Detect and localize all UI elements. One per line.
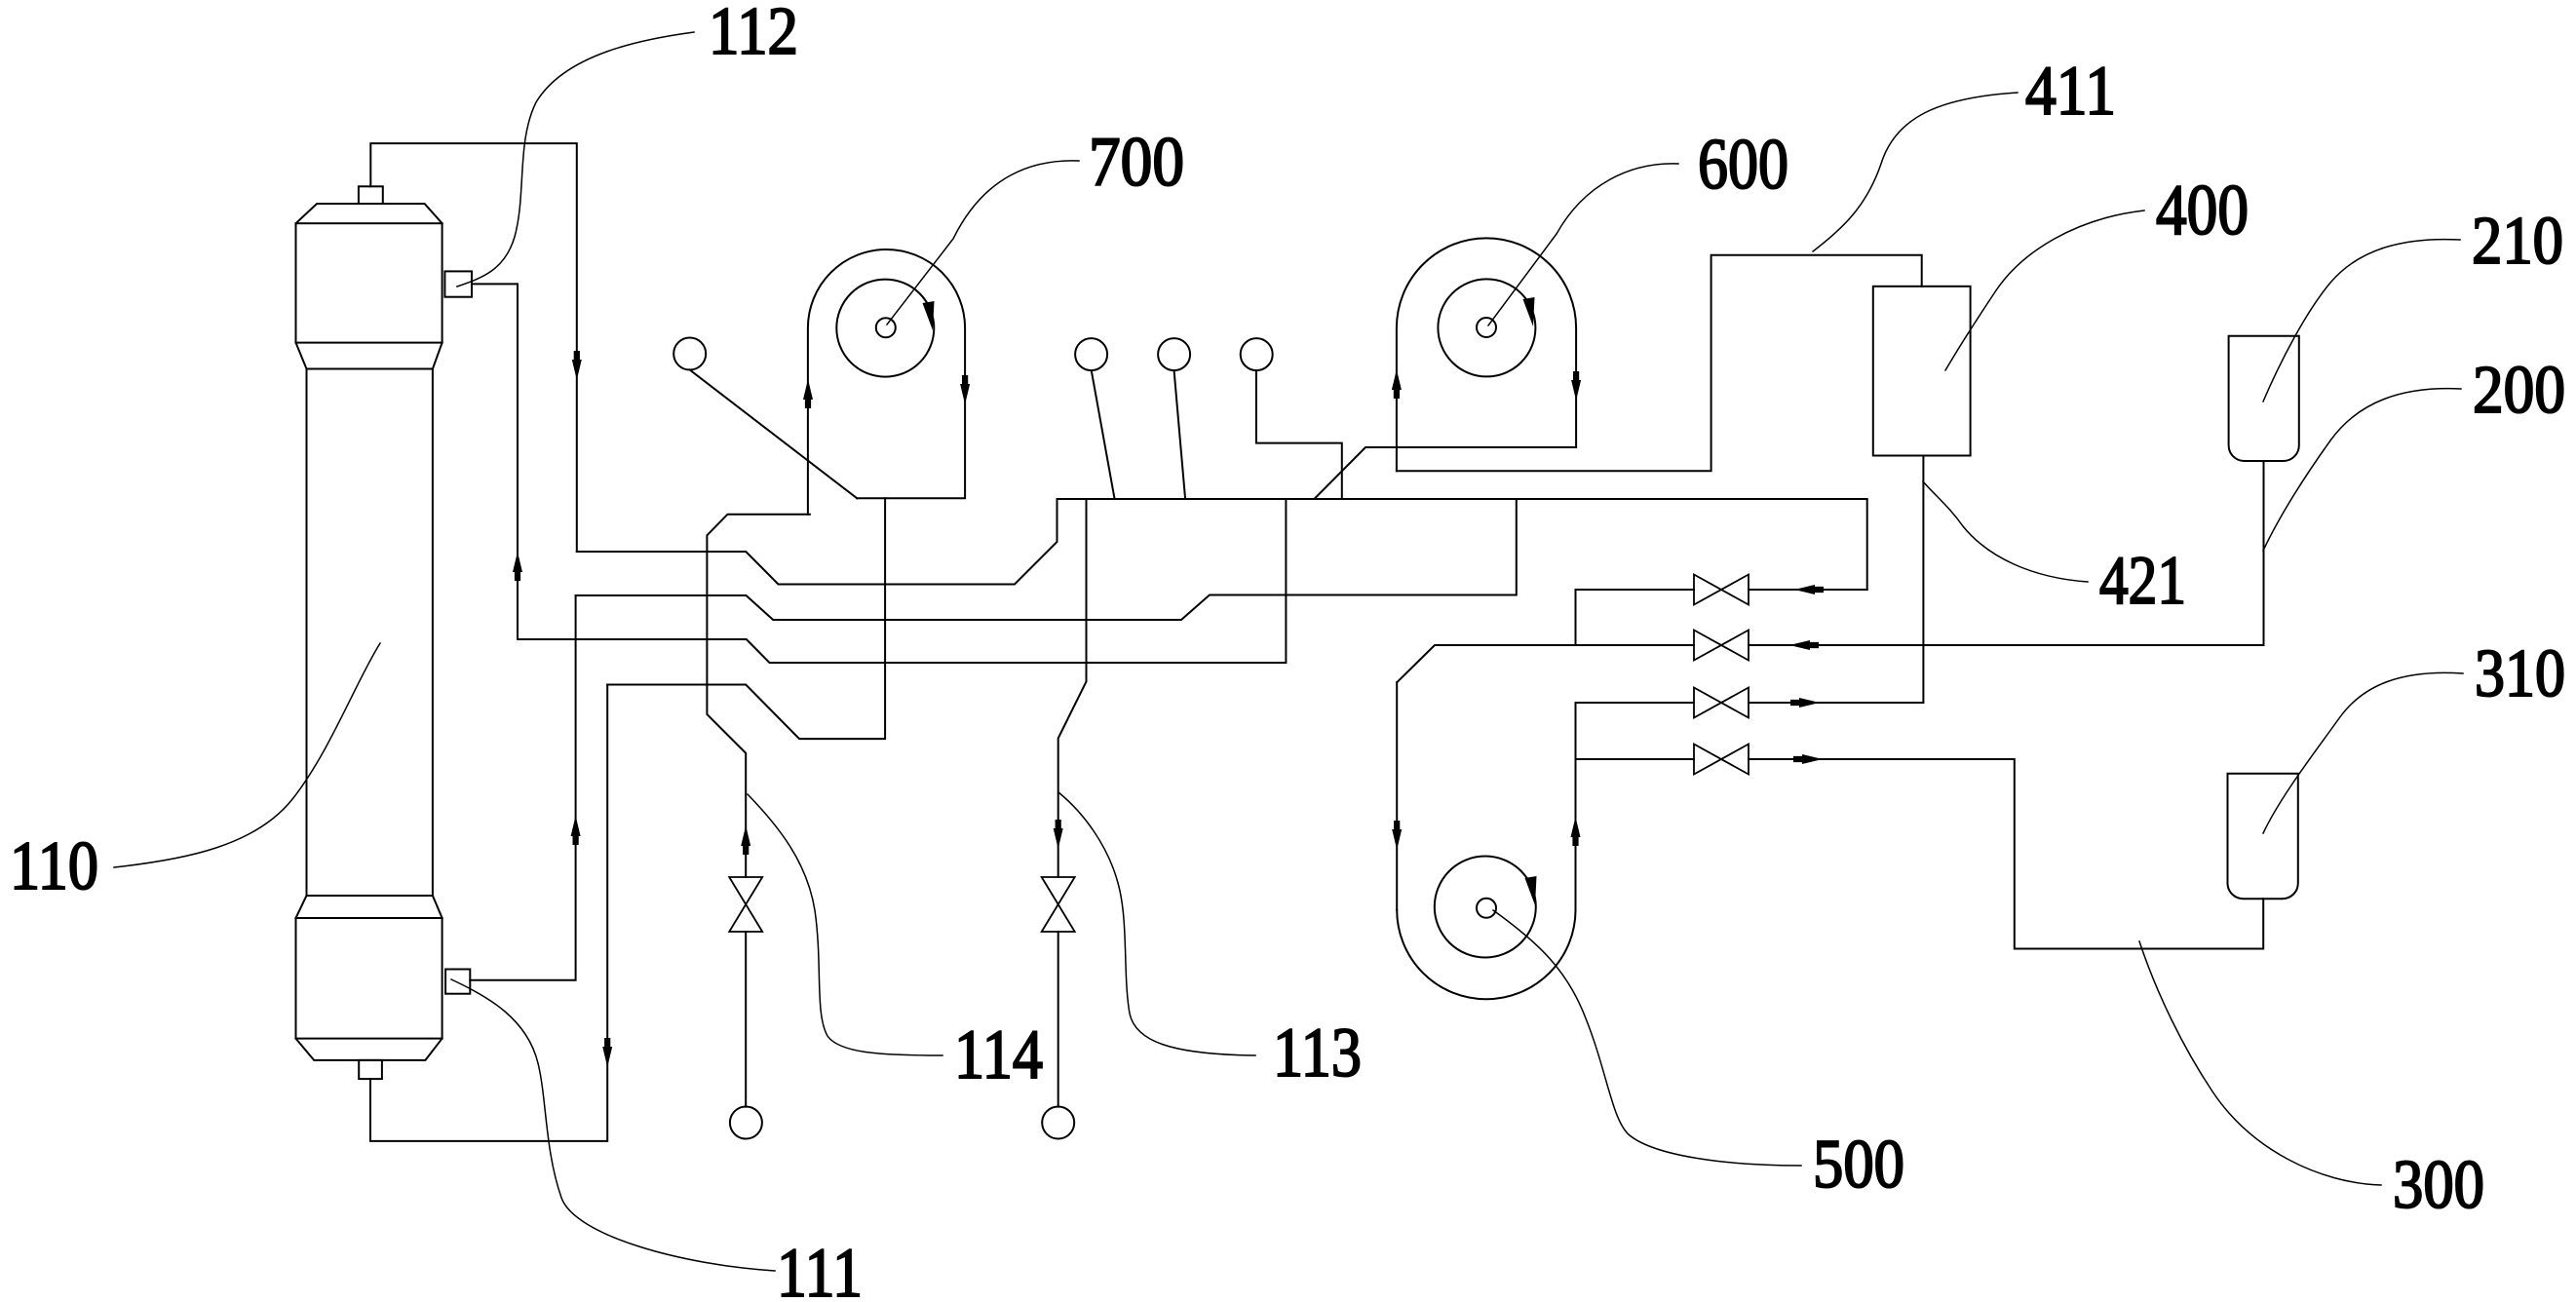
wire valve row4 left <box>1576 758 1695 760</box>
wire bottom-nub pipe to x623 riser <box>370 685 607 1141</box>
wire valve row4 right (to tank 310) <box>1749 759 2263 949</box>
pump 500 rotation arrow <box>1525 876 1537 905</box>
sensor circle S4 <box>1241 338 1273 370</box>
svg-text:112: 112 <box>709 0 798 69</box>
pump 700 rotation arrow <box>923 301 935 330</box>
label 411 leader <box>1813 93 2018 251</box>
wire S2 lead <box>1092 370 1115 499</box>
label 600 leader <box>1488 164 1678 325</box>
column 110 top taper <box>296 343 307 369</box>
svg-text:110: 110 <box>10 828 98 904</box>
label 210 leader <box>2263 240 2460 402</box>
column 110 bottom taper <box>296 896 307 918</box>
pump 700 hub circle <box>876 318 896 337</box>
valve V3 <box>1694 688 1749 718</box>
valve 113 <box>1042 877 1075 932</box>
label 700 leader <box>887 161 1079 325</box>
valve V2 <box>1694 631 1749 661</box>
arrow down pump 700 right <box>960 375 970 404</box>
label 200 leader <box>2263 389 2461 551</box>
pump 500 inlet drop <box>1396 682 1398 910</box>
sensor circle S3 <box>1158 338 1190 370</box>
label 500 leader <box>1493 910 1801 1166</box>
wire pump700 inlet to valve 114 drop <box>707 515 810 877</box>
wire valve row3 left <box>1576 702 1695 704</box>
wire junction row3-row4 and pump 500 outlet riser <box>1575 703 1577 910</box>
arrow down pump 600 right <box>1571 371 1581 401</box>
bottom side port (node 111) <box>445 970 470 994</box>
pump 600 hub circle <box>1477 318 1496 337</box>
label 421 leader <box>1923 481 2088 582</box>
svg-text:400: 400 <box>2156 171 2249 250</box>
arrow down valve 113 inlet <box>1054 820 1063 849</box>
arrow down on x623 riser <box>602 1038 612 1067</box>
svg-text:600: 600 <box>1698 125 1788 205</box>
svg-text:421: 421 <box>2099 543 2186 619</box>
node circle below valve 114 <box>730 1107 762 1139</box>
valve 114 <box>729 877 762 932</box>
column 110 top cap <box>296 223 442 342</box>
arrow up pump 500 right <box>1571 817 1581 846</box>
arrow up on x531 pipe <box>513 552 522 581</box>
svg-text:700: 700 <box>1089 122 1184 201</box>
label 113 leader <box>1058 792 1255 1055</box>
wire valve row1 right <box>1749 589 1867 591</box>
pump 600 housing <box>1397 238 1576 471</box>
wire valve 113 feed drop <box>1058 499 1087 877</box>
wire bottom port to x591 riser <box>470 595 575 980</box>
valve V4 <box>1694 745 1749 775</box>
arrow up valve 114 inlet <box>741 825 750 855</box>
arrow right row4 <box>1793 754 1823 764</box>
svg-text:210: 210 <box>2472 204 2563 279</box>
svg-text:200: 200 <box>2473 353 2565 428</box>
column 110 body <box>306 369 308 897</box>
label 112 leader <box>457 32 694 287</box>
pump 500 housing <box>1397 910 1575 1000</box>
port 112 (top side port) <box>444 271 472 296</box>
pump 500 impeller circle <box>1435 857 1536 958</box>
wire bus C (top port line) <box>518 499 1286 663</box>
wire valve row1 left <box>1576 589 1695 591</box>
label 110 leader <box>114 643 380 867</box>
pump 700 impeller circle <box>836 280 934 377</box>
arrow down on x592 pipe <box>572 351 582 380</box>
tank 210 <box>2229 336 2299 461</box>
column 110 top nub <box>359 186 383 204</box>
svg-text:114: 114 <box>954 1015 1043 1093</box>
column 110 top cap chamfer <box>296 204 442 223</box>
wire valve row2 right (to tank 210) <box>1749 461 2264 645</box>
pump 700 housing <box>808 249 965 515</box>
arrow left row1 <box>1794 585 1824 594</box>
pump 600 rotation arrow <box>1523 297 1535 326</box>
column 110 bottom chamfer <box>296 1039 442 1060</box>
arrow right row3 <box>1790 698 1820 708</box>
wire 421 (box 400 bottom drop) <box>1922 456 1924 704</box>
svg-text:310: 310 <box>2475 636 2565 711</box>
svg-text:111: 111 <box>777 1233 863 1302</box>
wire valve 114 outlet <box>745 932 747 1107</box>
label 111 leader <box>451 979 775 1271</box>
pump 600 impeller circle <box>1438 279 1535 376</box>
tank 310 <box>2228 774 2298 900</box>
wire valve 113 outlet <box>1057 932 1059 1107</box>
arrow up on x591 riser <box>571 816 581 845</box>
wire pump 600 inlet from box 400 <box>1397 255 1922 471</box>
wire bus D (bottom nub line to pump 700) <box>607 498 885 739</box>
label 400 leader <box>1945 211 2144 370</box>
node circle below valve 113 <box>1042 1107 1074 1139</box>
wire valve row3 right <box>1749 702 1923 704</box>
wire S1 lead <box>690 370 858 499</box>
wire bus B (bottom port line) <box>576 499 1517 620</box>
wire pump 600 bottom outlet <box>1315 447 1576 498</box>
svg-text:411: 411 <box>2025 51 2116 130</box>
wire S3 lead <box>1174 370 1186 499</box>
wire junction row1-row2 <box>1575 590 1577 645</box>
label 300 leader <box>2139 941 2381 1185</box>
arrow up pump 700 left <box>803 379 813 408</box>
svg-text:113: 113 <box>1273 1013 1362 1091</box>
column 110 bottom nub <box>359 1060 382 1079</box>
wire S4 lead <box>1256 370 1342 499</box>
svg-text:500: 500 <box>1813 1127 1904 1203</box>
valve V1 <box>1694 575 1749 605</box>
wire bus A (top nub line) <box>577 499 1867 590</box>
pump 500 hub circle <box>1477 899 1496 918</box>
sensor circle S1 <box>673 338 706 370</box>
wire top-nub outlet pipe <box>370 143 577 552</box>
label 310 leader <box>2263 672 2463 833</box>
svg-text:300: 300 <box>2393 1147 2484 1223</box>
box 400 (treatment unit) <box>1873 287 1971 456</box>
arrow down pump 500 left <box>1392 821 1402 850</box>
wire top port to x531 drop <box>472 284 518 639</box>
arrow left row2 <box>1789 640 1819 650</box>
arrow up pump 600 left <box>1392 369 1402 399</box>
sensor circle S2 <box>1075 338 1107 370</box>
label 114 leader <box>748 794 942 1055</box>
column 110 bottom cap <box>296 918 442 1039</box>
wire valve row2 left <box>1397 645 1694 682</box>
